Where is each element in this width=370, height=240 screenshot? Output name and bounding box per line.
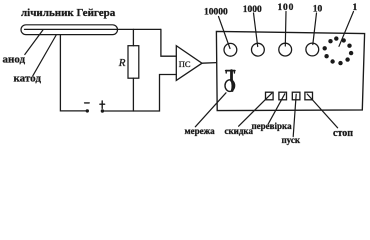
wire: cathode down and to battery minus <box>60 35 85 111</box>
svg-text:пуск: пуск <box>282 135 301 145</box>
label: 1 <box>353 3 358 13</box>
battery minus sign <box>85 102 90 104</box>
leader line мережа to plug <box>195 93 226 127</box>
indicator lamp circle 10000 <box>224 43 237 56</box>
op-amp U1 (amplifier ПС) triangle <box>176 46 202 81</box>
svg-text:лічильник Гейгера: лічильник Гейгера <box>21 7 116 19</box>
button square стоп <box>305 92 313 100</box>
leader line стоп to its button <box>307 94 337 128</box>
label: 100 <box>278 3 295 13</box>
button square пуск <box>292 92 300 100</box>
label: стоп <box>333 128 353 139</box>
indicator lamp circle 100 <box>279 43 292 56</box>
svg-text:R: R <box>118 57 126 69</box>
mains plug symbol <box>225 71 235 92</box>
svg-text:1000: 1000 <box>243 5 262 15</box>
svg-text:мережа: мережа <box>185 126 216 136</box>
resistor R body <box>128 46 139 78</box>
svg-text:стоп: стоп <box>333 128 353 139</box>
leader line анод <box>25 30 43 55</box>
anode wire inside tube, continuing right <box>25 28 161 30</box>
leader line 10 <box>313 13 317 45</box>
wire: anode line down to upper amplifier input <box>161 29 176 56</box>
resistor R top lead <box>132 29 134 45</box>
label: ПС <box>179 59 191 69</box>
svg-text:10000: 10000 <box>204 8 228 18</box>
indicator lamp circle 10 <box>306 43 319 56</box>
dial of dots (units indicator) <box>323 36 354 65</box>
label: 1000 <box>243 5 262 15</box>
leader line 100 <box>284 12 287 47</box>
label: скидка <box>225 126 254 136</box>
leader line 1000 <box>254 13 258 47</box>
svg-text:перевірка: перевірка <box>252 121 293 131</box>
svg-text:анод: анод <box>3 54 26 66</box>
svg-text:ПС: ПС <box>179 59 191 69</box>
battery B1 minus terminal <box>86 109 89 112</box>
label: лічильник Гейгера <box>21 7 116 19</box>
leader line 1 <box>339 12 354 47</box>
label: мережа <box>185 126 216 136</box>
label: 10000 <box>204 8 228 18</box>
svg-text:скидка: скидка <box>225 126 254 136</box>
wire: battery plus to lower amplifier input riser <box>102 75 176 112</box>
button square скидка <box>266 92 274 100</box>
counter unit box <box>216 31 364 110</box>
button square перевірка <box>279 92 287 100</box>
label: пуск <box>282 135 301 145</box>
label: R <box>118 57 126 69</box>
svg-text:катод: катод <box>14 73 42 85</box>
leader line скидка to its button <box>239 93 272 126</box>
label: катод <box>14 73 42 85</box>
leader line перевірка to its button <box>268 94 285 124</box>
label: анод <box>3 54 26 66</box>
battery plus sign <box>100 101 105 108</box>
svg-text:10: 10 <box>313 5 323 15</box>
indicator lamp circle 1000 <box>252 43 265 56</box>
label: перевірка <box>252 121 293 131</box>
Geiger tube GT1 body (cathode shell) <box>21 25 118 35</box>
battery B1 plus terminal <box>101 109 104 112</box>
leader line пуск to its button <box>293 94 296 136</box>
wire: amplifier output to counter box <box>202 62 216 65</box>
leader line 10000 <box>219 17 231 49</box>
label: 10 <box>313 5 323 15</box>
resistor R bottom lead <box>132 78 134 111</box>
leader line катод <box>33 35 56 76</box>
